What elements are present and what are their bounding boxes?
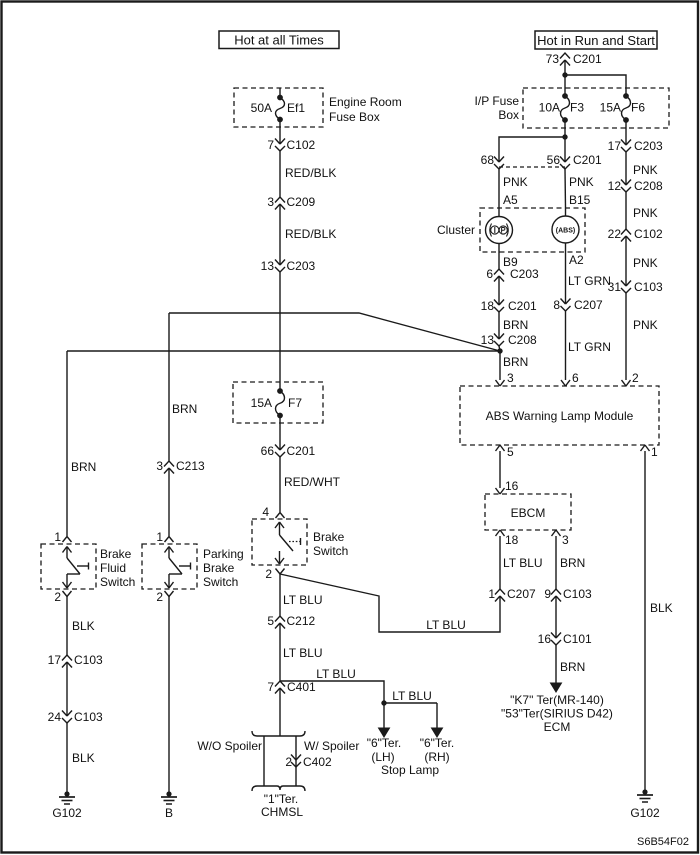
wire to ground B — [168, 597, 170, 795]
cluster ABS warning lamp — [552, 216, 579, 243]
svg-text:C102: C102 — [287, 138, 316, 152]
svg-text:C103: C103 — [634, 280, 663, 294]
brake fluid switch pin 2 — [54, 590, 71, 604]
cluster brake warning lamp — [486, 217, 513, 244]
ABS module pin 1 — [641, 445, 659, 459]
wire ABS pin5 to EBCM pin16 — [499, 451, 501, 488]
connector C102 pin 7 — [267, 138, 315, 152]
label W/ Spoiler — [304, 739, 359, 753]
connector C208 pin 12 — [608, 179, 663, 193]
wire C103 to C101 — [555, 596, 557, 638]
ABS module pin 5 — [496, 445, 515, 459]
svg-text:(RH): (RH) — [424, 750, 449, 764]
svg-text:I/P Fuse: I/P Fuse — [475, 94, 520, 108]
connector C209 pin 3 — [267, 195, 315, 210]
wire brake switch to C207 (diagonal) — [280, 574, 500, 632]
svg-text:BRN: BRN — [503, 318, 528, 332]
svg-text:LT BLU: LT BLU — [283, 593, 323, 607]
parking brake switch pin 2 — [156, 590, 173, 604]
parking brake switch pin 1 — [156, 530, 173, 544]
wire horizontal feed to parking brake switch — [169, 313, 500, 351]
label Stop Lamp — [381, 763, 439, 777]
svg-text:RED/BLK: RED/BLK — [285, 166, 336, 180]
label: Brake Switch — [313, 530, 348, 558]
svg-text:C101: C101 — [563, 632, 592, 646]
wire F6 to C203 — [625, 120, 627, 145]
svg-text:C102: C102 — [634, 227, 663, 241]
svg-text:Cluster: Cluster — [437, 223, 475, 237]
svg-text:Fluid: Fluid — [100, 561, 126, 575]
label: I/P Fuse Box — [475, 94, 520, 122]
label A5 — [503, 193, 518, 207]
svg-text:BRN: BRN — [560, 660, 585, 674]
wire RED/BLK C209-C203 — [280, 204, 336, 265]
wire branch to pin 68 — [499, 137, 565, 162]
wire Ef1 top stub — [279, 88, 281, 97]
connector C102 pin 22 — [608, 227, 663, 242]
connector C203 pin 13 — [261, 259, 316, 273]
svg-text:Switch: Switch — [100, 575, 135, 589]
wire C401 to CHMSL — [279, 688, 281, 736]
svg-text:C201: C201 — [573, 52, 602, 66]
wire ABS lamp to box bottom — [565, 243, 567, 252]
svg-text:BRN: BRN — [71, 460, 96, 474]
label stop lamp RH — [420, 736, 455, 764]
svg-text:F6: F6 — [631, 101, 645, 115]
svg-text:"1"Ter.: "1"Ter. — [264, 792, 299, 806]
svg-text:Switch: Switch — [203, 575, 238, 589]
wire C103-C103 — [66, 662, 68, 716]
connector C201 pin 73 — [546, 52, 602, 66]
connector C103 pin 9 — [544, 587, 592, 602]
CHMSL bottom bracket — [252, 786, 305, 791]
svg-text:13: 13 — [261, 259, 275, 273]
svg-text:G102: G102 — [52, 806, 82, 820]
wire PNK C103 to ABS pin 2 — [626, 293, 658, 380]
svg-text:C402: C402 — [303, 755, 332, 769]
Cluster box (dashed) — [480, 208, 585, 252]
svg-text:6: 6 — [572, 371, 579, 385]
svg-text:C203: C203 — [634, 139, 663, 153]
svg-text:ECM: ECM — [544, 720, 571, 734]
wire LT BLU branch to stop lamps — [280, 667, 437, 703]
svg-text:Parking: Parking — [203, 547, 244, 561]
svg-text:C212: C212 — [287, 614, 316, 628]
svg-text:C208: C208 — [634, 179, 663, 193]
svg-text:PNK: PNK — [569, 175, 594, 189]
wire PNK C102-C103 — [626, 236, 658, 286]
label B9 — [503, 255, 518, 269]
wire BRN EBCM-C103 — [556, 536, 585, 589]
EBCM pin 3 — [552, 530, 570, 547]
wire into ABS lamp — [565, 208, 567, 216]
svg-text:2: 2 — [632, 371, 639, 385]
label: Parking Brake Switch — [203, 547, 244, 589]
wire Ef1 to C102 — [279, 120, 281, 144]
ground B — [161, 792, 177, 820]
svg-text:PNK: PNK — [503, 175, 528, 189]
label: EBCM — [511, 506, 546, 520]
svg-text:3: 3 — [267, 195, 274, 209]
wire RED/BLK C102-C209 — [280, 151, 336, 197]
svg-text:C103: C103 — [563, 587, 592, 601]
fuse F7 15A — [251, 389, 303, 418]
wire LT BLU pin2 to C212 — [280, 574, 323, 616]
connector C203 pin 17 — [608, 139, 663, 153]
svg-text:22: 22 — [608, 227, 622, 241]
wire PNK C208-C102 — [626, 192, 658, 229]
svg-text:CHMSL: CHMSL — [261, 805, 303, 819]
svg-text:Box: Box — [498, 108, 519, 122]
svg-text:LT GRN: LT GRN — [568, 274, 611, 288]
label stop lamp LH — [367, 736, 402, 764]
svg-text:F7: F7 — [288, 396, 302, 410]
wire PNK C203-C208 — [626, 152, 658, 185]
connector C208 pin 13 — [481, 333, 537, 347]
svg-text:50A: 50A — [251, 101, 272, 115]
svg-text:15A: 15A — [251, 396, 272, 410]
svg-text:PNK: PNK — [633, 163, 658, 177]
svg-text:Hot in Run and Start: Hot in Run and Start — [537, 33, 655, 48]
EBCM pin 18 — [496, 530, 519, 547]
svg-text:Switch: Switch — [313, 544, 348, 558]
svg-text:1: 1 — [54, 530, 61, 544]
svg-text:Brake: Brake — [313, 530, 345, 544]
svg-text:Brake: Brake — [203, 561, 235, 575]
svg-text:6: 6 — [486, 267, 493, 281]
wire C203 to F7 box — [279, 272, 281, 391]
svg-text:Stop Lamp: Stop Lamp — [381, 763, 439, 777]
svg-text:17: 17 — [48, 653, 62, 667]
I/P Fuse Box (dashed) — [523, 88, 669, 128]
I/P fuse box F7 (dashed) — [233, 382, 323, 423]
svg-text:BLK: BLK — [72, 751, 95, 765]
connector C103 pin 24 — [48, 710, 103, 724]
svg-text:2: 2 — [265, 567, 272, 581]
wire branch to F6 — [565, 75, 626, 96]
brake switch contact arm — [275, 522, 301, 564]
wire to stop lamp RH — [432, 703, 443, 737]
svg-text:A2: A2 — [569, 253, 584, 267]
svg-text:G102: G102 — [630, 806, 660, 820]
label: Engine Room Fuse Box — [329, 95, 402, 124]
wire LT BLU EBCM-C207 — [500, 536, 543, 589]
svg-text:C203: C203 — [510, 267, 539, 281]
svg-text:12: 12 — [608, 179, 622, 193]
wire PNK 56 to cluster — [565, 169, 594, 208]
ABS Warning Lamp Module box (dashed) — [460, 386, 659, 445]
Engine Room Fuse Box (dashed) — [234, 88, 323, 127]
svg-text:16: 16 — [538, 632, 552, 646]
svg-text:C207: C207 — [574, 298, 603, 312]
svg-text:8: 8 — [553, 298, 560, 312]
svg-text:C208: C208 — [508, 333, 537, 347]
svg-text:16: 16 — [505, 479, 519, 493]
ground G102 right — [630, 790, 660, 820]
svg-text:2: 2 — [54, 590, 61, 604]
wire BRN C201-C208 — [499, 312, 528, 339]
svg-text:C201: C201 — [287, 444, 316, 458]
wire BRN to parking brake switch — [169, 313, 197, 461]
svg-text:C201: C201 — [508, 299, 537, 313]
svg-text:C401: C401 — [287, 680, 316, 694]
svg-text:2: 2 — [285, 755, 292, 769]
Brake Fluid Switch box (dashed) — [41, 544, 96, 589]
junction stop lamp branch — [382, 701, 386, 705]
svg-text:W/O Spoiler: W/O Spoiler — [197, 739, 262, 753]
wire BLK pin2 to C103 — [67, 597, 95, 656]
svg-text:3: 3 — [507, 371, 514, 385]
svg-text:3: 3 — [562, 533, 569, 547]
label B15 — [569, 193, 591, 207]
svg-text:10A: 10A — [539, 101, 560, 115]
ABS module pin 3 — [496, 371, 515, 386]
svg-text:RED/WHT: RED/WHT — [284, 475, 341, 489]
svg-text:C103: C103 — [74, 710, 103, 724]
label: ABS Warning Lamp Module — [486, 409, 634, 423]
wire BRN C208 to ABS pin 3 — [499, 346, 528, 380]
wire F3 to junction — [564, 120, 566, 137]
brake fluid switch contact arm — [63, 547, 89, 589]
svg-text:LT BLU: LT BLU — [392, 689, 432, 703]
label A2 — [569, 253, 584, 267]
ABS module pin 2 — [622, 371, 640, 386]
connector C212 pin 5 — [267, 614, 315, 629]
svg-text:C201: C201 — [573, 153, 602, 167]
svg-text:17: 17 — [608, 139, 622, 153]
svg-text:BLK: BLK — [650, 601, 673, 615]
svg-text:C209: C209 — [287, 195, 316, 209]
label: ECM terminals — [501, 693, 613, 734]
header box: Hot at all Times — [219, 31, 339, 49]
svg-text:5: 5 — [507, 445, 514, 459]
wire BLK to ground G102 — [67, 723, 95, 794]
wire LT BLU C212-C401 — [280, 623, 323, 681]
ground G102 left — [52, 792, 82, 820]
wire lamp to cluster box bottom — [498, 244, 500, 253]
connector C201 pin 56 — [547, 153, 602, 169]
svg-text:EBCM: EBCM — [511, 506, 546, 520]
connector C201 pin 18 — [481, 299, 537, 313]
svg-text:LT GRN: LT GRN — [568, 340, 611, 354]
junction below F3 — [563, 135, 567, 139]
svg-text:7: 7 — [267, 138, 274, 152]
wire F3 junction to pin 56 — [564, 137, 566, 162]
svg-text:5: 5 — [267, 614, 274, 628]
svg-text:Ef1: Ef1 — [287, 101, 305, 115]
svg-text:56: 56 — [547, 153, 561, 167]
svg-text:PNK: PNK — [633, 318, 658, 332]
Brake Switch box (dashed) — [252, 519, 307, 565]
brake switch pin 2 — [265, 567, 284, 581]
svg-text:73: 73 — [546, 52, 560, 66]
label LT BLU (horizontal run) — [426, 618, 466, 632]
svg-text:ABS Warning Lamp Module: ABS Warning Lamp Module — [486, 409, 634, 423]
svg-text:(ABS): (ABS) — [556, 228, 575, 235]
connector C203 pin 6 — [486, 267, 539, 282]
svg-text:C213: C213 — [176, 459, 205, 473]
connector C103 pin 17 — [48, 653, 103, 668]
wire horizontal feed to brake fluid switch — [67, 350, 500, 352]
svg-text:Engine Room: Engine Room — [329, 95, 402, 109]
svg-text:B15: B15 — [569, 193, 591, 207]
svg-text:Brake: Brake — [100, 547, 132, 561]
svg-text:BRN: BRN — [503, 355, 528, 369]
svg-text:18: 18 — [505, 533, 519, 547]
label W/O Spoiler — [197, 739, 262, 753]
svg-text:RED/BLK: RED/BLK — [285, 227, 336, 241]
svg-text:13: 13 — [481, 333, 495, 347]
connector C201 pin 66 — [261, 444, 316, 458]
svg-text:LT BLU: LT BLU — [426, 618, 466, 632]
svg-text:C207: C207 — [507, 587, 536, 601]
svg-text:15A: 15A — [600, 101, 621, 115]
connector C401 pin 7 — [267, 680, 316, 694]
wire C203-C201 — [498, 276, 500, 305]
svg-text:7: 7 — [267, 680, 274, 694]
wire RED/WHT C201 to brake switch — [280, 457, 341, 512]
svg-text:"6"Ter.: "6"Ter. — [420, 736, 455, 750]
wire F7 to C201 — [279, 415, 281, 450]
label: figure id S6B54F02 — [637, 836, 689, 848]
label CHMSL — [261, 792, 303, 819]
svg-text:18: 18 — [481, 299, 495, 313]
label: Cluster — [437, 223, 475, 237]
wire C213 to switch — [168, 468, 170, 536]
svg-text:24: 24 — [48, 710, 62, 724]
fuse F3 10A — [539, 94, 585, 123]
connector C402 pin 2 — [285, 755, 332, 770]
connector C101 pin 16 — [538, 632, 592, 646]
wire A2 to C207 — [566, 252, 611, 304]
svg-text:1: 1 — [156, 530, 163, 544]
svg-text:Fuse Box: Fuse Box — [329, 110, 380, 124]
wire BRN C101 to ECM — [551, 645, 586, 692]
wire C201-73 down to junction — [564, 60, 566, 96]
label: Brake Fluid Switch — [100, 547, 135, 589]
svg-text:C103: C103 — [74, 653, 103, 667]
dashed link connector C201 — [499, 166, 565, 168]
svg-text:B: B — [165, 806, 173, 820]
svg-text:4: 4 — [262, 505, 269, 519]
svg-text:PNK: PNK — [633, 206, 658, 220]
connector pin 68 — [481, 153, 504, 169]
fuse F6 15A — [600, 94, 646, 123]
brake fluid switch pin 1 — [54, 530, 71, 544]
svg-text:BRN: BRN — [560, 556, 585, 570]
svg-text:W/ Spoiler: W/ Spoiler — [304, 739, 359, 753]
parking brake switch contact arm — [165, 547, 191, 589]
EBCM box (dashed) — [485, 494, 571, 530]
junction above I/P fuse box — [563, 73, 567, 77]
connector C213 pin 3 — [156, 459, 205, 474]
svg-text:"6"Ter.: "6"Ter. — [367, 736, 402, 750]
wire PNK 68 to cluster — [499, 169, 528, 208]
wire LT GRN C207 to ABS pin 6 — [566, 311, 611, 380]
svg-text:LT BLU: LT BLU — [283, 646, 323, 660]
Parking Brake Switch box (dashed) — [142, 544, 197, 589]
wire BLK ABS pin1 to ground — [645, 451, 673, 792]
svg-text:F3: F3 — [570, 101, 584, 115]
svg-text:LT BLU: LT BLU — [316, 667, 356, 681]
svg-text:9: 9 — [544, 587, 551, 601]
svg-text:(LH): (LH) — [371, 750, 394, 764]
svg-text:2: 2 — [156, 590, 163, 604]
junction at C208/BRN — [498, 349, 502, 353]
svg-text:3: 3 — [156, 459, 163, 473]
svg-text:66: 66 — [261, 444, 275, 458]
svg-text:S6B54F02: S6B54F02 — [637, 836, 689, 848]
ABS module pin 6 — [561, 371, 579, 386]
svg-text:PNK: PNK — [633, 256, 658, 270]
header box: Hot in Run and Start — [535, 31, 657, 49]
wire to stop lamp LH — [379, 703, 390, 737]
svg-text:31: 31 — [608, 280, 622, 294]
svg-text:68: 68 — [481, 153, 495, 167]
svg-text:Hot at all Times: Hot at all Times — [234, 33, 324, 48]
brake switch pin 4 — [262, 505, 284, 519]
wire B9 to C203 — [498, 252, 500, 269]
connector C207 pin 1 — [488, 587, 536, 602]
wire into brake lamp — [498, 208, 500, 217]
wire BRN to brake fluid switch — [67, 351, 96, 536]
svg-text:LT BLU: LT BLU — [503, 556, 543, 570]
svg-text:1: 1 — [488, 587, 495, 601]
svg-text:"53"Ter(SIRIUS D42): "53"Ter(SIRIUS D42) — [501, 707, 613, 721]
svg-text:1: 1 — [651, 445, 658, 459]
CHMSL top bracket — [252, 731, 305, 786]
svg-text:"K7" Ter(MR-140): "K7" Ter(MR-140) — [510, 693, 604, 707]
svg-text:BLK: BLK — [72, 619, 95, 633]
svg-text:BRN: BRN — [172, 402, 197, 416]
svg-text:A5: A5 — [503, 193, 518, 207]
svg-text:C203: C203 — [287, 259, 316, 273]
connector C207 pin 8 — [553, 298, 603, 312]
connector C103 pin 31 — [608, 280, 663, 294]
fuse Ef1 50A — [251, 95, 306, 122]
EBCM pin 16 — [496, 479, 519, 494]
